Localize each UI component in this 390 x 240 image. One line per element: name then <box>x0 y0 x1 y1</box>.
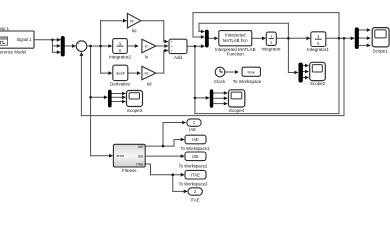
svg-text:du/dt: du/dt <box>116 71 126 76</box>
svg-text:−: − <box>78 48 80 52</box>
svg-text:1: 1 <box>119 41 122 46</box>
svg-text:Function: Function <box>227 51 245 56</box>
svg-text:IAE: IAE <box>192 137 199 142</box>
svg-text:To Workspace: To Workspace <box>233 79 262 84</box>
svg-text:IAE: IAE <box>138 145 144 149</box>
svg-text:Integrator: Integrator <box>261 47 281 52</box>
svg-text:Signal 1: Signal 1 <box>17 37 33 42</box>
svg-text:Derivative: Derivative <box>110 82 131 87</box>
svg-text:IAE: IAE <box>189 127 196 132</box>
svg-text:Integrator1: Integrator1 <box>307 47 329 52</box>
svg-text:kp: kp <box>130 19 134 23</box>
svg-text:+: + <box>171 49 173 53</box>
svg-text:ITAE: ITAE <box>191 197 200 202</box>
svg-text:ISE: ISE <box>192 154 199 159</box>
svg-text:time: time <box>248 69 255 74</box>
svg-text:kd: kd <box>147 82 152 87</box>
svg-text:ki: ki <box>145 54 148 59</box>
svg-text:Scope3: Scope3 <box>127 108 143 113</box>
svg-text:ISE: ISE <box>138 154 144 158</box>
svg-text:Scope1: Scope1 <box>373 48 389 53</box>
svg-text:ITAE: ITAE <box>191 172 200 177</box>
svg-text:s: s <box>270 40 272 45</box>
svg-text:+: + <box>78 42 80 46</box>
svg-text:To Workspace1: To Workspace1 <box>181 146 210 151</box>
svg-text:kp: kp <box>132 28 137 33</box>
svg-text:+: + <box>171 40 173 44</box>
svg-text:ki: ki <box>145 45 148 49</box>
svg-text:Integrator2: Integrator2 <box>109 54 131 59</box>
svg-text:1: 1 <box>270 34 272 39</box>
svg-text:MATLAB Fcn: MATLAB Fcn <box>223 38 248 43</box>
svg-text:kd: kd <box>145 72 149 76</box>
svg-text:Fitness: Fitness <box>122 168 137 173</box>
svg-text:+: + <box>171 45 173 49</box>
svg-text:ITAE: ITAE <box>136 163 144 167</box>
svg-text:ference Model: ference Model <box>0 49 26 54</box>
svg-text:Scope4: Scope4 <box>229 108 245 113</box>
svg-text:Scope2: Scope2 <box>310 81 326 86</box>
svg-text:Clock: Clock <box>214 79 226 84</box>
svg-text:error: error <box>117 154 126 158</box>
svg-text:Interpreted: Interpreted <box>225 33 246 38</box>
svg-text:To Workspace2: To Workspace2 <box>179 163 208 168</box>
svg-text:oup 1: oup 1 <box>0 26 10 31</box>
svg-text:To Workspace3: To Workspace3 <box>179 182 208 187</box>
svg-text:Add: Add <box>174 55 183 60</box>
svg-text:1: 1 <box>317 34 320 39</box>
